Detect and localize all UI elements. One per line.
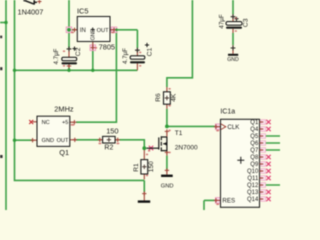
svg-text:IN: IN [80, 28, 86, 34]
svg-text:Q9: Q9 [250, 162, 259, 168]
svg-text:Q14: Q14 [247, 197, 259, 203]
svg-text:C1: C1 [147, 47, 154, 56]
svg-text:NC: NC [42, 120, 50, 126]
svg-text:GND: GND [90, 29, 96, 41]
svg-text:4.7µF: 4.7µF [53, 48, 60, 64]
svg-text:7805: 7805 [99, 43, 115, 52]
svg-text:Q12: Q12 [247, 183, 259, 189]
svg-text:4K: 4K [170, 93, 177, 102]
svg-text:150: 150 [106, 126, 118, 135]
svg-text:RES: RES [222, 198, 235, 205]
svg-text:Q1: Q1 [250, 120, 259, 126]
svg-text:R6: R6 [155, 93, 162, 102]
svg-text:GND: GND [42, 138, 54, 144]
svg-text:OUT: OUT [97, 28, 110, 34]
svg-text:OUT: OUT [57, 138, 69, 144]
svg-text:Q6: Q6 [250, 141, 259, 147]
svg-text:Q1: Q1 [59, 148, 69, 157]
svg-text:47µF: 47µF [219, 14, 226, 28]
svg-text:1N4007: 1N4007 [18, 8, 44, 17]
svg-text:Q8: Q8 [250, 155, 259, 161]
svg-text:IC5: IC5 [77, 6, 89, 15]
svg-text:R2: R2 [104, 144, 113, 151]
svg-text:Q10: Q10 [247, 169, 259, 175]
svg-text:2N7000: 2N7000 [175, 145, 198, 152]
svg-text:GND: GND [161, 184, 174, 190]
svg-text:Q7: Q7 [250, 148, 259, 154]
svg-text:+5: +5 [62, 120, 68, 126]
svg-text:GND: GND [227, 57, 239, 63]
svg-text:T1: T1 [175, 130, 183, 137]
svg-text:IC1a: IC1a [220, 109, 235, 116]
svg-text:4.7µF: 4.7µF [122, 48, 129, 64]
svg-text:C3: C3 [243, 18, 250, 27]
svg-text:CLK: CLK [227, 124, 240, 131]
svg-text:2MHz: 2MHz [54, 104, 74, 113]
svg-text:Q5: Q5 [250, 134, 259, 140]
svg-text:Q13: Q13 [247, 190, 259, 196]
svg-text:R1: R1 [133, 163, 140, 172]
svg-text:Q4: Q4 [250, 127, 259, 133]
svg-text:150: 150 [148, 161, 155, 172]
svg-text:Q11: Q11 [247, 176, 259, 182]
